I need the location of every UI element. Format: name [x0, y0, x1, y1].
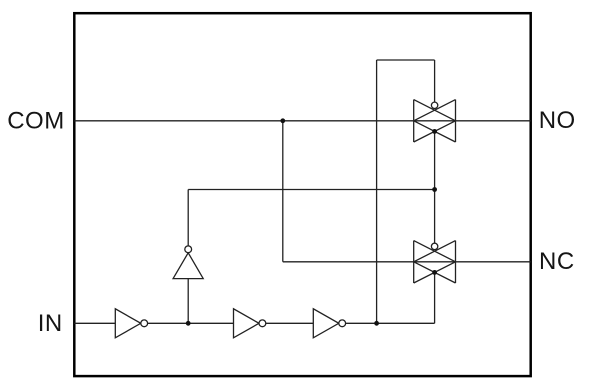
svg-text:COM: COM: [7, 107, 65, 134]
inverter U2 (points up): [173, 246, 203, 279]
wire top loop horizontal: [377, 59, 435, 61]
wire U1 output to U3 input: [147, 322, 234, 324]
junction on COM line: [280, 118, 285, 123]
transmission gate switch S2 (NC): [414, 241, 456, 283]
wire U3 output to U4 input: [266, 322, 313, 324]
wire NO switch gate to NC switch bubble: [434, 131, 436, 243]
junction on IN run at riser: [374, 321, 379, 326]
svg-text:NC: NC: [539, 248, 575, 275]
wire U2 output up: [187, 190, 189, 246]
wire NC horizontal to NC pin: [283, 261, 531, 263]
wire riser to top loop: [376, 60, 378, 323]
wire control horizontal to switch column: [188, 189, 434, 191]
wire COM horizontal to NO pin: [74, 120, 530, 122]
inverter U4: [313, 309, 345, 338]
junction on control line: [432, 187, 437, 192]
wire tap up to U2 input: [187, 279, 189, 324]
junction at S2 gate node: [432, 270, 437, 275]
inverter U3: [234, 309, 266, 338]
transmission gate switch S1 (NO): [414, 100, 456, 142]
svg-text:IN: IN: [38, 310, 63, 337]
junction at S1 gate node: [432, 129, 437, 134]
inverter U1: [115, 309, 147, 338]
wire COM branch vertical down: [282, 121, 284, 262]
wire U4 output run: [346, 322, 435, 324]
IC boundary box: [74, 13, 530, 376]
svg-text:NO: NO: [539, 107, 576, 134]
wire IN input: [74, 322, 115, 324]
junction on IN line at U2 tap: [186, 321, 191, 326]
wire NC switch gate down to IN run: [434, 272, 436, 323]
wire drop to NO switch bubble: [434, 60, 436, 102]
